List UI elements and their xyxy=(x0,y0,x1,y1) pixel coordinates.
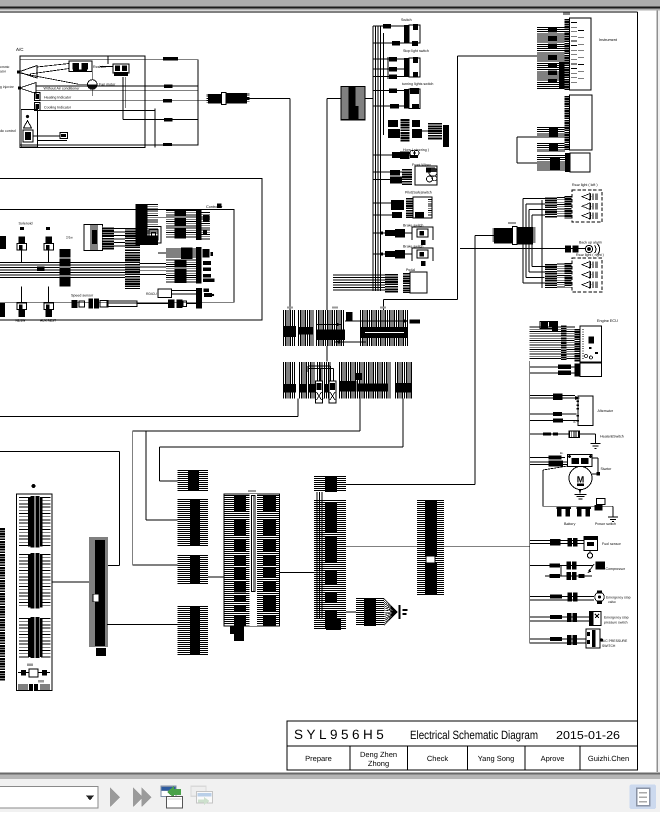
row1 black square xyxy=(346,312,353,321)
svg-text:Battery: Battery xyxy=(564,522,576,526)
instrument top tag xyxy=(563,13,570,16)
filter box xyxy=(84,225,103,251)
export page icon disabled xyxy=(191,786,207,798)
heater fuse xyxy=(569,431,580,438)
row1 arrow wire xyxy=(345,320,408,322)
switch1 box xyxy=(409,25,420,43)
instrument box 3 xyxy=(570,153,590,172)
wire X1 to center drop xyxy=(247,98,290,100)
svg-text:M: M xyxy=(577,475,585,485)
rear left lamp 2 xyxy=(582,203,590,209)
A/C wire connector dashes xyxy=(163,57,178,60)
svg-text:B+: B+ xyxy=(560,451,564,455)
connector pair X2 block B xyxy=(518,227,534,245)
svg-text:emote: emote xyxy=(0,65,10,69)
sheet frame top border xyxy=(0,11,638,13)
svg-text:Starter: Starter xyxy=(601,467,613,471)
C4 right ticks xyxy=(202,213,211,239)
viewer top bar xyxy=(0,0,660,7)
switch3 connector strip xyxy=(404,89,409,109)
bus dash xyxy=(383,24,391,29)
controller outer box xyxy=(0,178,262,320)
connector pair X1 block B xyxy=(227,93,248,103)
left connector section y496 xyxy=(31,496,40,548)
instrument harness 2b xyxy=(537,144,565,152)
row2 drop wire x360 xyxy=(359,399,361,432)
RDICU wires xyxy=(172,290,197,292)
heating indicator lamp xyxy=(35,93,41,101)
svg-text:Emergency stop: Emergency stop xyxy=(606,596,631,600)
wire M to R y624 xyxy=(107,623,178,625)
left connector section y553 xyxy=(31,553,40,609)
twin box tail xyxy=(230,626,244,634)
harness connector C3 xyxy=(125,227,140,289)
svg-text:g injector: g injector xyxy=(0,85,15,89)
rear left lamp 3 xyxy=(582,213,590,219)
svg-text:2015-01-26: 2015-01-26 xyxy=(556,730,620,742)
wire relay to fan xyxy=(91,72,93,80)
svg-text:Heating Indicator: Heating Indicator xyxy=(44,96,72,100)
warning triangle symbol xyxy=(24,121,32,129)
harness loop wire xyxy=(517,136,537,138)
bus wire y416 xyxy=(0,416,298,418)
starter feed wires xyxy=(530,457,565,459)
instrument harness 3 xyxy=(537,156,565,171)
valve2 wire down xyxy=(48,250,50,263)
backup alarm connector xyxy=(565,246,571,253)
connector column Q body xyxy=(314,501,346,629)
row1 arrow wire 3 xyxy=(317,324,341,326)
E right marks xyxy=(203,261,211,265)
battery 1 xyxy=(557,507,572,509)
pilot connector strip xyxy=(406,197,413,218)
funnel converging wires xyxy=(384,599,398,625)
row2 connector G xyxy=(340,362,390,399)
evaporator sensor triangle 1 xyxy=(19,66,38,79)
svg-text:Zhong: Zhong xyxy=(368,759,389,768)
svg-text:turning lights switch: turning lights switch xyxy=(402,82,433,86)
svg-text:Aprove: Aprove xyxy=(541,754,565,763)
right column bus xyxy=(529,361,531,643)
backup alarm sounder xyxy=(585,245,592,252)
row1 arrow wire 2 xyxy=(335,341,366,343)
ECU F glyph xyxy=(589,337,595,344)
twin box top tag xyxy=(248,490,256,492)
wire triangle1 to resistor box xyxy=(37,64,69,68)
row tags xyxy=(287,307,293,309)
solenoid stub left edge mid xyxy=(0,236,6,249)
A/C inner box xyxy=(20,56,145,148)
ECU pin dots xyxy=(583,330,584,359)
alternator box xyxy=(578,396,593,426)
svg-text:RDICU: RDICU xyxy=(146,292,157,296)
gearbox solenoid valve 1 xyxy=(19,237,26,244)
row2 plug symbol 1 xyxy=(316,381,323,403)
rear left feed wires xyxy=(523,198,545,200)
toolbar separator xyxy=(0,773,660,775)
pedal harness wires xyxy=(333,274,385,276)
svg-text:Rear light ( right ): Rear light ( right ) xyxy=(576,253,604,257)
play button icon xyxy=(110,788,120,808)
svg-text:ator: ator xyxy=(0,70,7,74)
fuel sensor connector xyxy=(568,538,573,547)
Q internal verticals xyxy=(316,492,318,618)
svg-text:Stop light switch: Stop light switch xyxy=(403,49,429,53)
connector top dot xyxy=(32,484,36,488)
connector column R seg4 xyxy=(178,607,209,655)
speed sensor wire xyxy=(137,303,168,305)
rear right lamp 3 xyxy=(582,282,590,288)
toolbar background xyxy=(0,779,660,812)
left connector row B xyxy=(29,684,38,691)
emergency pressure wires xyxy=(530,616,590,618)
instrument connector strip xyxy=(565,18,570,90)
emergency pressure switch xyxy=(590,612,602,626)
svg-text:Pilot(Safe)switch: Pilot(Safe)switch xyxy=(405,191,432,195)
plug feed wires xyxy=(317,366,319,381)
svg-text:AUX REST: AUX REST xyxy=(40,319,56,323)
funnel terminal xyxy=(399,605,401,619)
compressor clutch xyxy=(596,562,606,570)
svg-text:Rear light ( left ): Rear light ( left ) xyxy=(572,183,598,187)
filter harness wires xyxy=(114,228,125,230)
connector pair X1 seam xyxy=(222,93,227,105)
wire mode to aux box xyxy=(33,135,60,137)
inner vertical wire xyxy=(154,109,156,148)
row1 connector C xyxy=(317,310,344,346)
left connector section y617 xyxy=(31,617,40,658)
instrument harness 2a xyxy=(537,128,565,138)
fan motor xyxy=(88,80,98,90)
B1 left wire xyxy=(327,98,341,100)
title block row divider xyxy=(287,745,638,747)
flasher block B1 xyxy=(341,87,365,119)
bus wire y547 to right xyxy=(444,546,530,548)
row2 connector E xyxy=(284,362,295,399)
pedal connector xyxy=(385,273,398,293)
twin box left blocks xyxy=(234,495,246,511)
battery 2 xyxy=(577,507,592,509)
bus wire y447 xyxy=(159,446,403,448)
instrument box xyxy=(570,18,592,90)
RDICU connector xyxy=(196,288,202,299)
svg-text:N2/1W: N2/1W xyxy=(16,319,26,323)
vertical wire x475 down to Q xyxy=(474,236,476,485)
speed sensor piece2 xyxy=(100,301,108,308)
svg-text:2/1w: 2/1w xyxy=(66,236,73,240)
connector pair X2 block A xyxy=(494,228,512,244)
fuel sensor wires xyxy=(530,540,584,542)
gearbox solenoid valve 3 xyxy=(17,303,27,310)
ECU lower row wires xyxy=(530,366,575,368)
alternator lower wires xyxy=(530,413,577,415)
X2 lower feed wires xyxy=(522,245,524,284)
title block column dividers xyxy=(349,746,351,770)
nested loop wires xyxy=(146,227,161,244)
valve1 wire down xyxy=(21,250,23,263)
svg-text:SYL956H5: SYL956H5 xyxy=(294,727,387,742)
cable row D xyxy=(166,249,199,257)
A/C outer box xyxy=(20,60,198,145)
notes button xyxy=(630,785,657,810)
svg-text:SWITCH: SWITCH xyxy=(602,644,616,648)
connector column R seg3 xyxy=(178,556,209,584)
connector column M xyxy=(89,538,108,646)
main left connector box xyxy=(17,494,53,691)
starter bypass wire xyxy=(543,466,568,470)
row2 drop wire x403 xyxy=(402,399,404,448)
wire top to relay xyxy=(107,56,109,64)
instrument2 connector strip xyxy=(565,95,570,150)
controller inner box xyxy=(0,210,234,303)
pilot block xyxy=(391,200,404,210)
wire Q head right xyxy=(346,484,475,486)
bottom connector pair xyxy=(168,300,175,309)
fast forward icon xyxy=(133,788,143,808)
bus connector block xyxy=(60,249,71,287)
gearbox solenoid valve 2 xyxy=(46,237,53,244)
starter solenoid box xyxy=(568,455,593,467)
row1-row2 link wire xyxy=(326,346,328,362)
connector column R head xyxy=(178,471,209,491)
rear light right dashed box xyxy=(572,258,602,292)
bus connector dash xyxy=(37,267,45,272)
rear left connector strip xyxy=(565,195,572,219)
backup alarm wire xyxy=(460,248,586,250)
wire M right top xyxy=(108,565,120,567)
svg-text:Pedal: Pedal xyxy=(406,268,415,272)
controller bus wires mid xyxy=(71,262,126,264)
valve4 wire xyxy=(48,287,50,304)
title block border xyxy=(287,721,638,770)
ECU lower connector xyxy=(575,364,580,377)
rear left lamp 1 xyxy=(582,194,590,200)
instrument box 2 xyxy=(570,95,593,150)
Q bottom blob xyxy=(326,618,341,630)
svg-text:Speed sensor: Speed sensor xyxy=(71,294,94,298)
svg-text:pressure switch: pressure switch xyxy=(604,621,628,625)
wire R to twin box xyxy=(208,576,224,578)
tiny labels xyxy=(27,664,33,666)
page combobox xyxy=(0,787,98,809)
switch2 box xyxy=(409,58,420,77)
connector cluster C4 xyxy=(166,211,196,237)
vertical wire x327 down xyxy=(326,99,328,311)
ECU connector strip 2 xyxy=(575,328,581,362)
power switch ground xyxy=(603,505,614,507)
twin connector box xyxy=(224,494,280,626)
svg-text:Instrument: Instrument xyxy=(599,38,618,42)
starter motor ground xyxy=(579,489,581,491)
triangle 2 without-AC xyxy=(20,83,37,94)
svg-text:Deng Zhen: Deng Zhen xyxy=(360,750,397,759)
svg-text:Horn ( steering ): Horn ( steering ) xyxy=(403,148,429,152)
switch2 rows xyxy=(373,58,404,60)
row2 plug symbol 2 xyxy=(329,381,336,403)
wire bus to E xyxy=(140,263,167,265)
switch1 connector strip xyxy=(404,25,409,43)
speed sensor connector pair xyxy=(89,299,100,309)
svg-text:Alternator: Alternator xyxy=(598,409,614,413)
rear right lamp 1 xyxy=(582,262,590,268)
heater ground xyxy=(591,443,601,445)
svg-text:Heater&Switch: Heater&Switch xyxy=(600,435,624,439)
ECU connector strip 1 xyxy=(561,325,567,361)
flasher bar xyxy=(443,125,449,147)
RDICU box xyxy=(158,289,172,298)
switch column bus wires xyxy=(372,26,374,291)
svg-text:de control: de control xyxy=(0,129,16,133)
wiper motor box xyxy=(415,166,437,185)
junction dot xyxy=(26,115,29,118)
svg-text:Engine ECU: Engine ECU xyxy=(597,319,618,323)
svg-text:Check: Check xyxy=(427,754,449,763)
filter connector xyxy=(103,227,115,250)
row2 connector F xyxy=(300,362,331,399)
connector pair X1 block A xyxy=(208,94,221,103)
connector column V xyxy=(417,501,444,595)
connector pair X2 seam xyxy=(513,227,518,245)
instrument3 connector strip xyxy=(565,153,570,172)
rear right connector strip xyxy=(565,262,572,288)
svg-text:Guizhi.Chen: Guizhi.Chen xyxy=(588,754,629,763)
row1 output bar xyxy=(410,320,421,324)
wire fan to rail xyxy=(91,89,93,96)
wire instrument drop xyxy=(457,56,459,300)
ECU harness wires xyxy=(530,326,575,328)
emergency stop valve wires xyxy=(530,596,594,598)
power switch xyxy=(597,499,606,505)
wiper connector strip xyxy=(402,168,412,186)
pedal strip xyxy=(403,272,410,293)
fuel sensor unit xyxy=(584,537,598,551)
wire y56 to instrument xyxy=(458,55,537,57)
rear right lamp 2 xyxy=(582,272,590,278)
X2 left wire to drop xyxy=(475,235,494,237)
rear right harness xyxy=(545,263,557,288)
flasher right link wire xyxy=(422,130,428,132)
mode control box xyxy=(21,109,37,146)
twin box center spine xyxy=(250,494,258,626)
wire box to M xyxy=(52,581,89,583)
relay drop wires xyxy=(122,77,124,120)
svg-text:Back up alarm: Back up alarm xyxy=(579,241,602,245)
valve1 tag xyxy=(20,227,24,230)
brake switch row 1 xyxy=(373,232,412,234)
bus wire x146 branch xyxy=(145,431,147,520)
mode relay xyxy=(23,130,33,142)
svg-text:Cooling Indicator: Cooling Indicator xyxy=(44,106,72,110)
row1 connector A xyxy=(284,310,295,346)
svg-text:Emergency stop: Emergency stop xyxy=(604,616,629,620)
ac pressure wires xyxy=(530,638,586,640)
alternator feed wires xyxy=(530,395,575,397)
B1 right wire xyxy=(365,98,373,100)
valve3 wire xyxy=(21,287,23,304)
tall connector A2 xyxy=(136,204,148,245)
bus wire y431 xyxy=(133,430,360,432)
svg-text:A/C PRESSURE: A/C PRESSURE xyxy=(602,639,628,643)
emergency stop valve xyxy=(595,592,605,602)
vertical wire x290 down to connector row xyxy=(289,99,291,310)
connector column R seg2 xyxy=(178,500,209,546)
svg-text:Power switch: Power switch xyxy=(595,522,616,526)
svg-text:Solenoid: Solenoid xyxy=(19,222,33,226)
instrument harness 1 xyxy=(537,28,565,89)
svg-text:Resistor: Resistor xyxy=(93,65,107,69)
speed sensor body xyxy=(107,301,137,307)
bus top wire xyxy=(373,25,404,27)
row1 connector D xyxy=(361,310,408,346)
window right edge line xyxy=(656,11,658,772)
twin box right blocks xyxy=(263,495,276,511)
ECU bottom symbols xyxy=(584,354,587,357)
wire A2 to C4 xyxy=(158,216,166,218)
sheet frame right border xyxy=(637,12,639,771)
switch1 bottom row xyxy=(373,42,412,44)
import page icon xyxy=(161,786,177,798)
valve2 tag xyxy=(46,227,50,230)
ECU lower box xyxy=(580,363,602,377)
svg-text:Compressor: Compressor xyxy=(606,567,626,571)
cooling indicator lamp xyxy=(35,103,41,111)
switch3 box xyxy=(409,89,420,109)
A/C rail wires xyxy=(36,85,198,87)
flasher right block xyxy=(428,122,442,140)
relay component K xyxy=(113,64,129,73)
ac pressure switch xyxy=(586,629,600,648)
compressor wire 1 xyxy=(530,565,593,567)
svg-text:Fuel sensor: Fuel sensor xyxy=(602,542,622,546)
ECU box xyxy=(580,326,602,362)
wire Q to funnel xyxy=(346,611,356,613)
switch2 connector strip xyxy=(404,58,409,77)
instrument tiny rows xyxy=(578,31,584,79)
controller bus wires left xyxy=(0,262,60,264)
row1 connector B xyxy=(299,310,313,346)
svg-text:valve: valve xyxy=(608,600,616,604)
svg-text:Yang Song: Yang Song xyxy=(478,754,515,763)
ECU top connector xyxy=(540,322,558,329)
svg-text:A/C: A/C xyxy=(16,47,24,52)
starter motor xyxy=(569,467,592,490)
compressor wire 2 xyxy=(560,566,562,577)
heater row wire xyxy=(530,433,569,435)
svg-text:Electrical Schematic Diagram: Electrical Schematic Diagram xyxy=(410,728,538,742)
resistor box R xyxy=(69,61,92,72)
row2 drop wire x298 xyxy=(297,399,299,417)
pilot box xyxy=(413,197,432,218)
speed sensor piece xyxy=(79,301,85,307)
harness junction vertical xyxy=(541,200,543,288)
rear light left dashed box xyxy=(572,190,602,222)
gearbox solenoid valve 4 xyxy=(44,303,54,310)
row2 connector H xyxy=(396,362,412,399)
flasher cluster blocks xyxy=(388,120,398,127)
left edge connector strip xyxy=(0,527,5,681)
pedal box xyxy=(410,272,427,293)
rear left harness xyxy=(545,197,557,218)
connector column Q head xyxy=(314,477,346,491)
svg-text:Prepare: Prepare xyxy=(305,754,332,763)
starter right wire xyxy=(592,457,598,459)
X2 top tag xyxy=(508,222,516,224)
connector cluster E xyxy=(166,260,198,282)
svg-text:Switch: Switch xyxy=(401,18,412,22)
switch3 rows xyxy=(373,90,404,92)
funnel connector block xyxy=(356,599,384,625)
wire triangle1 to fan motor xyxy=(21,73,80,84)
